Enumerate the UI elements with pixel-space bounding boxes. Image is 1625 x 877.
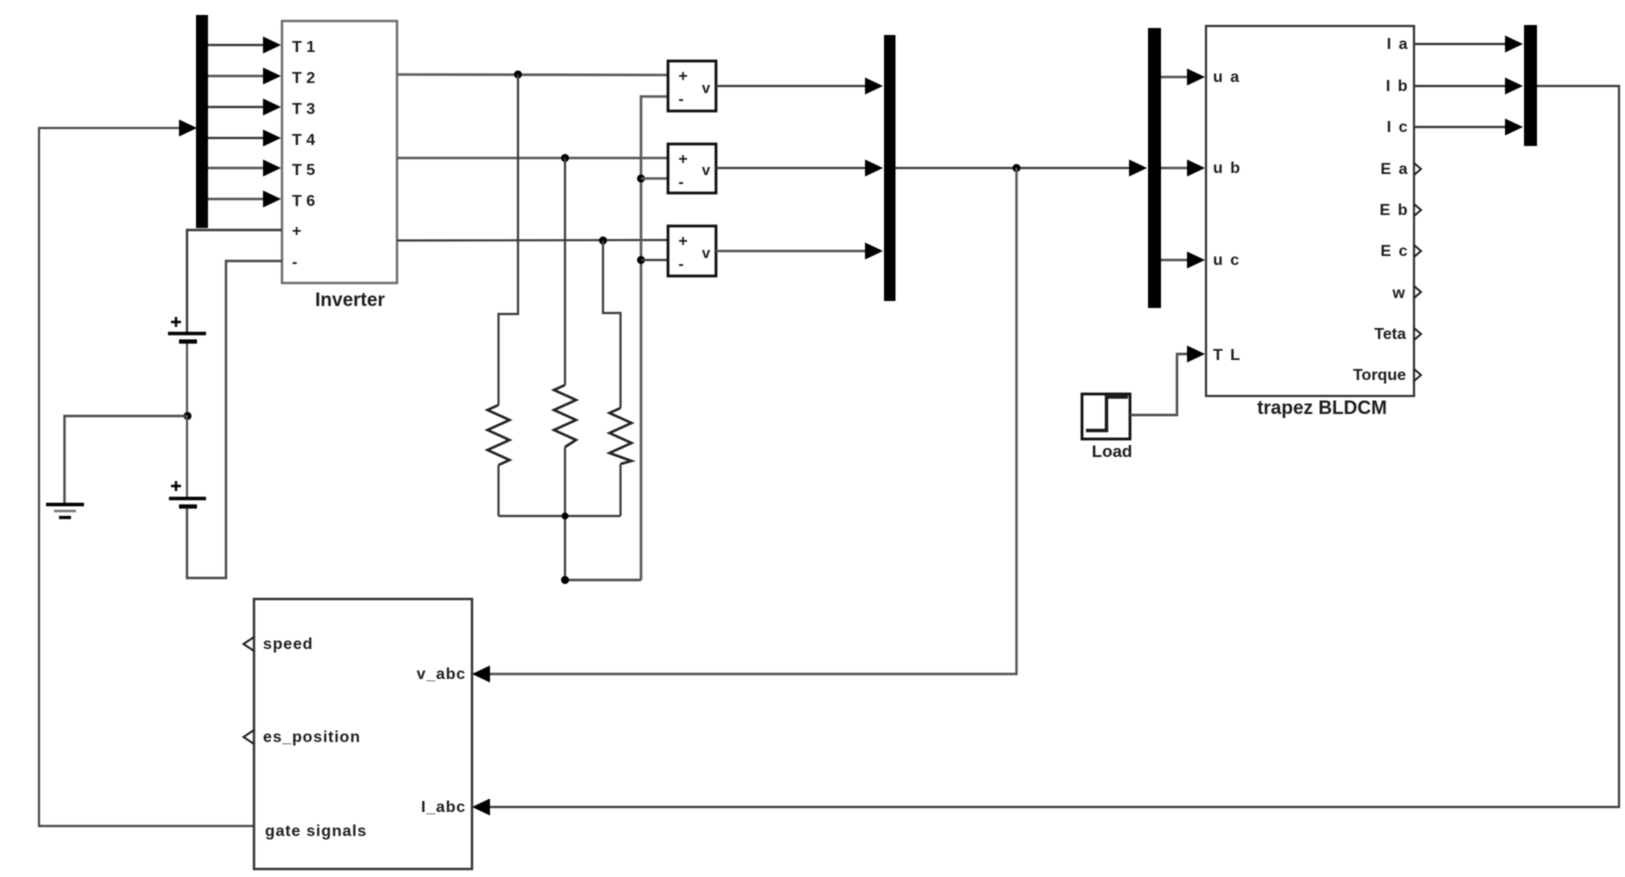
svg-text:-: -: [292, 254, 297, 271]
svg-text:I a: I a: [1387, 36, 1409, 53]
wire: battery B2 to inverter minus terminal: [187, 261, 282, 578]
arrowhead I a: [1505, 36, 1523, 53]
svg-text:T 1: T 1: [292, 39, 315, 56]
controller block U4: [254, 599, 472, 869]
wire: load to T L input: [1130, 354, 1190, 415]
wire: neutral to voltmeter minus bus: [565, 579, 641, 581]
wire: inverter output phase a: [397, 73, 668, 76]
svg-text:E a: E a: [1380, 161, 1409, 178]
svg-text:u c: u c: [1213, 252, 1241, 269]
svg-text:E c: E c: [1380, 243, 1409, 260]
arrowhead I b: [1505, 78, 1523, 95]
node tap c junction dot: [599, 237, 607, 245]
wire: resistor R2 down to neutral node: [564, 447, 566, 580]
wire: I c output to mux: [1414, 126, 1508, 128]
wire: mux output v_abc bus: [896, 167, 1133, 169]
arrowhead u a: [1187, 69, 1205, 86]
wire: VM1 output to mux: [716, 85, 868, 87]
arrowhead v bus into demux: [1129, 160, 1147, 177]
wire: resistor R3 to neutral bus: [619, 464, 621, 516]
svg-text:u a: u a: [1213, 69, 1241, 86]
resistor R1: [488, 405, 510, 465]
svg-text:T 2: T 2: [292, 70, 315, 87]
demux U1 (gate signal demux bar): [196, 15, 208, 228]
svg-text:T L: T L: [1213, 347, 1242, 364]
svg-text:I c: I c: [1387, 119, 1409, 136]
arrowhead T3: [263, 99, 281, 116]
battery B1 positive plate: [168, 332, 206, 336]
svg-text:-: -: [678, 174, 683, 191]
voltmeter VM3: [668, 226, 716, 276]
mux M2 (current mux bar): [1524, 25, 1537, 146]
wire: demux to u c: [1161, 259, 1190, 261]
port chevron speed: [244, 637, 255, 651]
svg-text:v: v: [702, 162, 711, 179]
resistor R2: [554, 385, 576, 447]
svg-text:trapez BLDCM: trapez BLDCM: [1257, 398, 1387, 419]
node A junction dot: [184, 412, 192, 420]
wire T1: [208, 44, 268, 46]
port chevron E b: [1414, 204, 1421, 216]
arrowhead T L: [1187, 346, 1205, 363]
svg-text:u b: u b: [1213, 160, 1242, 177]
wire: I_abc feedback to controller: [488, 86, 1619, 807]
arrowhead T6: [263, 191, 281, 208]
wire: inverter output phase c: [397, 239, 668, 242]
arrowhead v_abc into controller: [472, 666, 490, 683]
svg-text:speed: speed: [263, 636, 313, 653]
wire: tap c down to resistor R3: [603, 241, 621, 409]
svg-text:+: +: [678, 233, 687, 250]
wire: demux to u a: [1161, 76, 1190, 78]
node minus bus b junction dot: [637, 175, 645, 183]
svg-text:+: +: [292, 223, 301, 240]
wire: battery B1 to node A: [186, 344, 188, 417]
wire T3: [208, 106, 268, 108]
svg-text:T 3: T 3: [292, 101, 315, 118]
port chevron E a: [1414, 163, 1421, 175]
demux D2 (voltage demux bar): [1148, 28, 1161, 308]
port chevron E c: [1414, 245, 1421, 257]
node minus bus c junction dot: [637, 256, 645, 264]
load step source: [1082, 394, 1130, 439]
svg-text:T 4: T 4: [292, 132, 315, 149]
port chevron es_position: [244, 730, 255, 744]
arrowhead I c: [1505, 119, 1523, 136]
svg-text:v: v: [702, 80, 711, 97]
arrowhead u c: [1187, 252, 1205, 269]
battery B2 plus sign: [171, 481, 181, 491]
wire: node A to ground branch: [65, 416, 188, 503]
wire: minus bus stub to VM2: [641, 177, 668, 180]
port chevron Torque: [1414, 369, 1421, 381]
node neutral2 junction dot: [561, 576, 569, 584]
wire: demux to u b: [1161, 167, 1190, 169]
svg-text:+: +: [678, 151, 687, 168]
arrowhead into demux bar: [179, 120, 197, 137]
wire: VM2 output to mux: [716, 167, 868, 169]
wire: VM3 output to mux: [716, 250, 868, 252]
svg-text:Torque: Torque: [1353, 367, 1406, 384]
wire: node A to battery B2: [186, 416, 188, 497]
mux M1 (voltage mux bar): [884, 35, 896, 301]
svg-text:-: -: [678, 91, 683, 108]
svg-text:E b: E b: [1380, 202, 1409, 219]
arrowhead VM1 to mux: [865, 78, 883, 95]
svg-text:T 5: T 5: [292, 162, 315, 179]
battery B2 positive plate: [169, 497, 206, 501]
wire: inverter plus terminal to battery: [187, 230, 282, 332]
node tap a junction dot: [514, 71, 522, 79]
wire: v_abc branch down to controller: [488, 168, 1017, 674]
svg-text:-: -: [678, 256, 683, 273]
arrowhead T2: [263, 68, 281, 85]
load step icon: [1086, 397, 1128, 431]
port chevron Teta: [1414, 328, 1421, 340]
battery B2 negative plate: [179, 504, 197, 508]
battery B1 negative plate: [179, 339, 197, 343]
svg-text:gate signals: gate signals: [265, 823, 367, 840]
arrowhead VM3 to mux: [865, 243, 883, 260]
port chevron w: [1414, 286, 1421, 298]
svg-text:es_position: es_position: [263, 729, 361, 746]
svg-text:v_abc: v_abc: [417, 666, 466, 683]
svg-text:w: w: [1392, 285, 1406, 302]
wire: neutral bus R1-R3: [499, 515, 621, 517]
arrowhead VM2 to mux: [865, 160, 883, 177]
battery B1 plus sign: [171, 317, 181, 327]
wire: inverter output phase b: [397, 157, 668, 160]
arrowhead u b: [1187, 160, 1205, 177]
voltmeter VM2: [668, 144, 716, 193]
svg-text:I_abc: I_abc: [421, 799, 466, 816]
wire: voltmeter minus bus vertical: [641, 97, 668, 581]
node tap b junction dot: [561, 154, 569, 162]
wire: tap a down to resistor R1: [499, 75, 519, 406]
wire T6: [208, 198, 268, 200]
wire T4: [208, 137, 268, 139]
svg-text:I b: I b: [1386, 78, 1409, 95]
wire: minus bus stub to VM3: [641, 259, 668, 261]
wire: I b output to mux: [1414, 85, 1508, 87]
voltmeter VM1: [668, 61, 716, 111]
arrowhead T5: [263, 160, 281, 177]
resistor R3: [610, 408, 632, 464]
ground symbol: [46, 505, 84, 518]
arrowhead I_abc into controller: [472, 799, 490, 816]
node v_abc junction dot: [1013, 164, 1021, 172]
node neutral junction dot: [562, 513, 569, 520]
inverter block U2: [282, 21, 397, 283]
wire T5: [208, 167, 268, 169]
arrowhead T1: [263, 37, 281, 54]
svg-text:v: v: [702, 245, 711, 262]
svg-text:Teta: Teta: [1374, 326, 1406, 343]
svg-text:T 6: T 6: [292, 193, 315, 210]
svg-text:+: +: [678, 68, 687, 85]
wire T2: [208, 75, 268, 77]
trapez BLDCM block U3: [1206, 26, 1414, 396]
wire: gate signals feedback loop: [39, 128, 254, 826]
svg-text:Inverter: Inverter: [315, 290, 385, 311]
wire: tap b down to resistor R2: [564, 158, 566, 385]
wire: I a output to mux: [1414, 43, 1508, 45]
arrowhead T4: [263, 130, 281, 147]
svg-text:Load: Load: [1092, 442, 1133, 461]
wire: resistor R1 to neutral bus: [497, 465, 499, 516]
